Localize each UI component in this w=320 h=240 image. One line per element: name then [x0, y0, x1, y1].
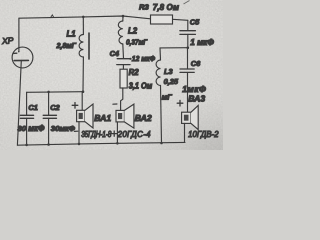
svg-text:1 мкФ: 1 мкФ	[190, 38, 214, 47]
capacitor C2	[43, 91, 75, 146]
svg-text:35ГДН-1-8: 35ГДН-1-8	[81, 129, 112, 139]
wire top rail right of R3	[173, 19, 188, 20]
capacitor C5	[180, 17, 214, 47]
svg-text:7,8 Ом: 7,8 Ом	[153, 3, 179, 12]
resistor R2	[120, 68, 153, 91]
svg-text:С1: С1	[28, 103, 37, 112]
stray pen mark top right	[184, 1, 190, 5]
node B junction dot	[187, 46, 190, 49]
inductor L2	[118, 15, 148, 47]
svg-text:R2: R2	[129, 68, 140, 77]
svg-text:ВА1: ВА1	[94, 113, 111, 123]
svg-text:0,37мГ: 0,37мГ	[126, 39, 148, 46]
resistor R3	[139, 3, 179, 24]
svg-text:мкФ: мкФ	[28, 124, 45, 133]
wire bottom rail	[17, 142, 185, 145]
svg-text:С6: С6	[191, 59, 201, 68]
wire BA3 to bottom rail	[184, 123, 186, 142]
wire L2 to C4	[122, 44, 125, 58]
svg-text:30: 30	[18, 124, 27, 133]
svg-text:L1: L1	[67, 30, 76, 39]
wire top rail tick mark	[51, 15, 54, 18]
svg-text:1мкФ: 1мкФ	[182, 84, 206, 94]
svg-text:30мкФ: 30мкФ	[51, 124, 75, 133]
svg-text:0,25: 0,25	[164, 77, 179, 86]
wire L1 to node A	[82, 57, 84, 92]
capacitor C4	[110, 49, 156, 65]
polarity + BA1	[72, 103, 78, 109]
svg-text:мГ: мГ	[162, 92, 172, 101]
svg-text:ВА3: ВА3	[188, 94, 205, 104]
svg-text:R3: R3	[139, 3, 150, 12]
speaker BA2	[116, 104, 152, 139]
svg-text:12 мкФ: 12 мкФ	[132, 53, 156, 63]
svg-text:2,8мГ: 2,8мГ	[56, 41, 77, 50]
svg-text:L2: L2	[128, 27, 138, 36]
capacitor C1	[18, 92, 46, 146]
wire L3 to bottom rail	[161, 86, 162, 144]
inductor L1	[56, 16, 89, 59]
capacitor C6	[180, 48, 206, 113]
svg-text:XP: XP	[1, 35, 14, 46]
wire node A horizontal	[27, 91, 83, 94]
svg-text:С4: С4	[110, 49, 119, 58]
svg-text:С5: С5	[190, 17, 200, 26]
speaker BA3	[182, 94, 219, 140]
wire top rail left of R3	[19, 16, 151, 19]
wire BA2 to bottom rail	[116, 122, 118, 143]
node A junction dot	[82, 90, 85, 93]
polarity - BA2	[113, 103, 117, 105]
speaker BA1	[77, 104, 113, 139]
connector XP	[1, 18, 33, 145]
svg-text:3,1 Ом: 3,1 Ом	[129, 81, 153, 90]
svg-text:С2: С2	[50, 103, 60, 112]
svg-text:L3: L3	[164, 67, 174, 76]
wire BA1 to bottom rail	[78, 122, 80, 144]
wire C4 to R2	[122, 65, 124, 70]
polarity + BA3	[177, 100, 183, 106]
svg-text:10ГДВ-2: 10ГДВ-2	[188, 130, 219, 139]
svg-text:ВА2: ВА2	[135, 113, 152, 123]
wire node B horizontal	[160, 47, 188, 49]
svg-text:20ГДС-4: 20ГДС-4	[117, 130, 151, 139]
polarity - BA1	[74, 130, 78, 132]
wire R2 to BA2	[121, 88, 123, 110]
inductor L3	[156, 48, 179, 102]
polarity + BA2	[112, 131, 117, 136]
wire node A to BA1	[81, 92, 83, 110]
